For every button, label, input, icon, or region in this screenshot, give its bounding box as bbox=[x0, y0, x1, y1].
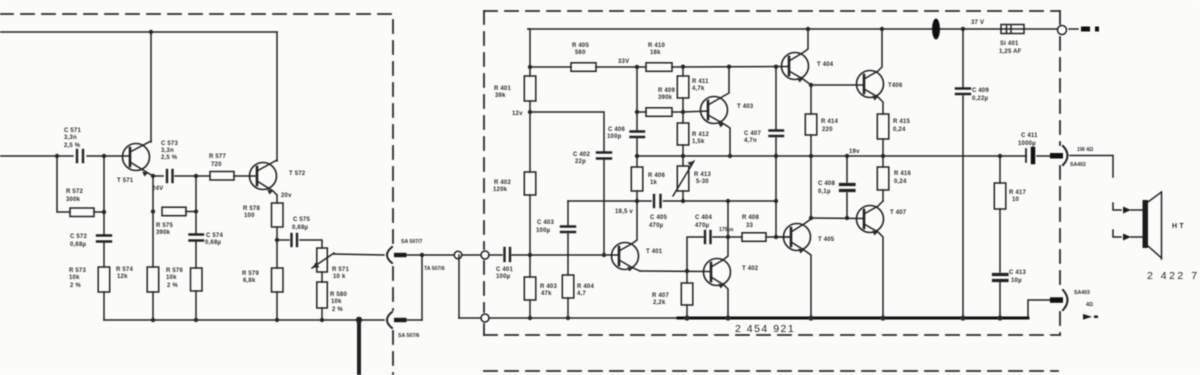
label R403 bbox=[540, 284, 557, 297]
wire output to SA402 bbox=[1037, 155, 1051, 157]
label C413 bbox=[1009, 270, 1026, 284]
svg-text:6,8k: 6,8k bbox=[243, 278, 256, 284]
svg-text:R 403: R 403 bbox=[540, 284, 557, 290]
label 19v bbox=[849, 149, 860, 155]
svg-text:R 410: R 410 bbox=[648, 43, 665, 49]
wire x728 link bbox=[727, 201, 729, 237]
svg-text:R 402: R 402 bbox=[494, 180, 511, 186]
svg-text:R 411: R 411 bbox=[692, 79, 709, 85]
wire x683 column bbox=[682, 67, 684, 201]
capacitor C408 bbox=[846, 156, 848, 218]
svg-text:33V: 33V bbox=[618, 59, 629, 65]
svg-text:1k: 1k bbox=[650, 180, 658, 186]
label C572 bbox=[70, 234, 87, 248]
node supply terminal circle bbox=[1058, 26, 1067, 35]
svg-text:T 404: T 404 bbox=[817, 62, 834, 68]
svg-text:R 577: R 577 bbox=[209, 154, 226, 160]
node T405 emitter ground junction bbox=[808, 315, 813, 320]
label R580 bbox=[330, 292, 347, 313]
node R404 ground junction bbox=[566, 316, 570, 320]
node R579 ground junction bbox=[275, 318, 279, 322]
label R573 bbox=[69, 268, 86, 289]
svg-text:100µ: 100µ bbox=[536, 228, 551, 234]
label C406 bbox=[607, 127, 625, 140]
label 20v bbox=[281, 193, 292, 199]
connector SA403 pin bbox=[1050, 297, 1063, 303]
speaker plug arrows bbox=[1123, 207, 1131, 241]
svg-text:C 408: C 408 bbox=[818, 181, 835, 187]
node shield tap bbox=[420, 253, 424, 257]
resistor R401 bbox=[524, 76, 536, 101]
potentiometer R571 bbox=[312, 248, 334, 272]
ground arrow mark SA403 bbox=[1083, 314, 1098, 320]
capacitor C406 bbox=[631, 132, 645, 138]
svg-text:100p: 100p bbox=[607, 134, 622, 140]
node ground terminal circle bbox=[481, 314, 489, 322]
node R412 output junction bbox=[681, 154, 685, 158]
label R578 bbox=[243, 206, 260, 219]
label C574 bbox=[205, 233, 223, 246]
label R415 bbox=[893, 119, 910, 133]
svg-text:0,68µ: 0,68µ bbox=[292, 225, 308, 231]
connector SA507/7 socket bbox=[387, 247, 392, 263]
svg-text:175µs: 175µs bbox=[719, 227, 734, 233]
label R576 bbox=[166, 268, 183, 289]
svg-text:33: 33 bbox=[746, 223, 754, 229]
wire C572 branch bbox=[103, 156, 105, 320]
label R412 bbox=[692, 132, 709, 145]
svg-text:C 405: C 405 bbox=[650, 215, 667, 221]
wire 12v link bbox=[530, 112, 604, 255]
label C408 bbox=[818, 181, 835, 195]
label part number speaker bbox=[1147, 270, 1200, 282]
node T403 base junction bbox=[681, 110, 685, 114]
svg-text:T 401: T 401 bbox=[646, 249, 663, 255]
resistor R409 bbox=[637, 108, 683, 117]
capacitor C403 bbox=[561, 227, 575, 233]
svg-text:R 417: R 417 bbox=[1009, 190, 1026, 196]
capacitor C572 bbox=[97, 236, 111, 242]
svg-text:4,7k: 4,7k bbox=[692, 86, 705, 92]
capacitor C407 bbox=[770, 131, 784, 137]
svg-text:R 580: R 580 bbox=[330, 292, 347, 298]
transistor T403 bbox=[683, 67, 730, 156]
svg-text:C 575: C 575 bbox=[293, 217, 310, 223]
label R575 bbox=[156, 223, 173, 236]
svg-text:2,5 %: 2,5 % bbox=[64, 143, 81, 149]
node R417 rail junction bbox=[998, 154, 1002, 158]
resistor R579 bbox=[272, 268, 284, 292]
svg-text:2 %: 2 % bbox=[70, 283, 81, 289]
svg-text:SA 507/6: SA 507/6 bbox=[398, 333, 420, 339]
svg-text:720: 720 bbox=[211, 162, 222, 168]
svg-text:T 405: T 405 bbox=[818, 237, 835, 243]
label R572 bbox=[66, 189, 83, 203]
node R576 ground junction bbox=[194, 318, 198, 322]
svg-text:T406: T406 bbox=[888, 83, 903, 89]
label C403 bbox=[536, 220, 554, 234]
wire pot to R580 bbox=[321, 272, 323, 320]
label 37V bbox=[971, 20, 984, 26]
wire T404 emitter to T406 base bbox=[811, 84, 864, 86]
resistor R407 bbox=[681, 271, 693, 317]
wire T572 collector bbox=[276, 32, 278, 161]
label 33V bbox=[618, 59, 629, 65]
node R575 left junction bbox=[151, 209, 155, 213]
node collector tap y237 bbox=[726, 235, 730, 239]
svg-text:T 572: T 572 bbox=[289, 171, 306, 177]
wire shield drop right bbox=[458, 255, 460, 318]
wire thick ground drop bbox=[357, 319, 361, 375]
resistor R575 bbox=[162, 207, 196, 216]
wire shield drop left bbox=[421, 255, 423, 320]
svg-text:10µ: 10µ bbox=[1011, 278, 1022, 284]
label T402 bbox=[742, 266, 759, 272]
wire input to T401 base bbox=[489, 254, 619, 256]
svg-text:T 403: T 403 bbox=[737, 104, 754, 110]
node C573/R577 junction bbox=[194, 174, 198, 178]
node input terminal circle bbox=[481, 251, 489, 259]
node ground drop junction bbox=[356, 317, 362, 323]
node plug circle TA507 bbox=[454, 251, 462, 259]
svg-text:C 402: C 402 bbox=[573, 152, 590, 158]
svg-text:37 V: 37 V bbox=[971, 20, 984, 26]
resistor R406 bbox=[631, 167, 643, 191]
svg-text:R 575: R 575 bbox=[156, 223, 173, 229]
label C411 bbox=[1018, 133, 1038, 147]
speaker HT bbox=[1143, 192, 1162, 259]
resistor R416 bbox=[877, 156, 889, 201]
wire speaker feed marks bbox=[1113, 203, 1121, 237]
label part number amp bbox=[735, 323, 795, 335]
node rail/T571 collector junction bbox=[149, 30, 153, 34]
svg-text:SA402: SA402 bbox=[1070, 162, 1086, 168]
label R402 bbox=[493, 180, 511, 193]
transistor T571 bbox=[123, 141, 154, 177]
node T405 collector junction bbox=[809, 216, 813, 220]
wire T571 collector bbox=[150, 32, 152, 142]
label R405 bbox=[572, 43, 589, 56]
transistor T406 bbox=[857, 29, 884, 114]
svg-text:0,1µ: 0,1µ bbox=[818, 189, 831, 195]
dashed border left preamp block bbox=[0, 14, 393, 375]
connector SA507/6 socket bbox=[387, 312, 392, 328]
capacitor C404 bbox=[705, 231, 711, 243]
label TA507/6 bbox=[424, 266, 445, 272]
connector SA402 socket bbox=[1063, 146, 1068, 165]
node C402/T401 base junction bbox=[602, 253, 606, 257]
label C409 bbox=[972, 88, 989, 102]
label C573 bbox=[161, 141, 178, 161]
svg-text:390k: 390k bbox=[658, 95, 673, 101]
label R417 bbox=[1009, 190, 1026, 203]
wire input line bbox=[0, 155, 129, 157]
capacitor C401 bbox=[505, 248, 511, 261]
wire supply rail 37V bbox=[528, 28, 1057, 30]
svg-text:4,7n: 4,7n bbox=[744, 138, 757, 144]
svg-text:300k: 300k bbox=[66, 197, 81, 203]
resistor R405 bbox=[530, 63, 646, 72]
resistor R576 bbox=[191, 268, 203, 291]
label R407 bbox=[652, 293, 669, 306]
node C408 base junction bbox=[845, 216, 849, 220]
wire T572 emitter column bbox=[276, 195, 278, 320]
wire C413 to ground bbox=[999, 282, 1001, 318]
svg-text:0,22µ: 0,22µ bbox=[972, 96, 988, 102]
dashed border lower block edge bbox=[484, 370, 1058, 372]
svg-text:2 %: 2 % bbox=[332, 307, 343, 313]
svg-text:0,24: 0,24 bbox=[894, 179, 907, 185]
label R414 bbox=[821, 119, 838, 133]
capacitor C409 bbox=[956, 89, 970, 95]
node C571/T571 base junction bbox=[102, 154, 106, 158]
resistor R572 bbox=[70, 208, 94, 217]
label SA507/7 bbox=[401, 239, 423, 245]
capacitor C574 bbox=[190, 235, 204, 241]
node emitter/R407 junction bbox=[685, 269, 689, 273]
svg-text:C 571: C 571 bbox=[64, 128, 81, 134]
svg-text:R 573: R 573 bbox=[69, 268, 86, 274]
ferrite bead on rail bbox=[932, 19, 940, 40]
node output rail left end bbox=[635, 154, 639, 158]
wire supply rail left block bbox=[0, 31, 277, 33]
wire ground to SA403 bbox=[1028, 300, 1051, 318]
svg-text:2 422 73: 2 422 73 bbox=[1147, 270, 1200, 282]
transistor T407 bbox=[857, 201, 884, 318]
wire supply thick dash outside bbox=[1081, 27, 1099, 32]
svg-text:C 413: C 413 bbox=[1009, 270, 1026, 276]
node x728 link top junction bbox=[726, 199, 730, 203]
svg-text:1,5k: 1,5k bbox=[692, 139, 705, 145]
svg-text:SA 507/7: SA 507/7 bbox=[401, 239, 423, 245]
wire feedback node line 18.5V bbox=[568, 200, 651, 202]
node T403 emitter rail junction bbox=[728, 154, 732, 158]
svg-text:470µ: 470µ bbox=[695, 223, 710, 229]
label HT bbox=[1172, 223, 1184, 230]
svg-text:Si 401: Si 401 bbox=[1000, 41, 1019, 47]
node C409 rail junction bbox=[961, 27, 965, 31]
label C402 bbox=[573, 152, 590, 165]
wire C407 column x776 bbox=[775, 67, 777, 237]
node T406 collector rail junction bbox=[880, 27, 884, 31]
svg-text:100µ: 100µ bbox=[496, 274, 511, 280]
svg-text:20v: 20v bbox=[281, 193, 292, 199]
resistor R415 bbox=[877, 114, 889, 156]
svg-text:R 409: R 409 bbox=[658, 88, 675, 94]
wire R572 feedback loop bbox=[57, 156, 104, 212]
svg-text:TA 507/6: TA 507/6 bbox=[424, 266, 445, 272]
capacitor C402 bbox=[597, 153, 611, 159]
wire signal to power amp bbox=[406, 254, 481, 256]
transistor T404 bbox=[782, 29, 812, 85]
svg-text:R 416: R 416 bbox=[894, 171, 911, 177]
wire ground rail thick bbox=[678, 317, 1028, 320]
label C575 bbox=[292, 217, 310, 231]
svg-text:0,68µ: 0,68µ bbox=[205, 240, 221, 246]
wire R577 to T572 base bbox=[234, 175, 257, 177]
svg-text:1000µ: 1000µ bbox=[1018, 141, 1036, 147]
label C404 bbox=[695, 215, 712, 229]
label R409 bbox=[658, 88, 675, 101]
svg-text:10 k: 10 k bbox=[333, 274, 346, 280]
svg-text:T 402: T 402 bbox=[742, 266, 759, 272]
svg-text:0,24: 0,24 bbox=[893, 127, 906, 133]
wire C403 column x568 bbox=[567, 201, 569, 318]
svg-text:1W 4Ω: 1W 4Ω bbox=[1077, 147, 1093, 153]
wire x637 column bbox=[636, 67, 638, 201]
resistor R403 bbox=[524, 277, 536, 300]
wire C575 link bbox=[277, 240, 322, 248]
svg-text:C 572: C 572 bbox=[70, 234, 87, 240]
capacitor C411 bbox=[1025, 149, 1027, 162]
svg-text:18k: 18k bbox=[650, 50, 661, 56]
resistor R417 bbox=[994, 156, 1006, 272]
svg-text:H T: H T bbox=[1172, 223, 1184, 230]
label T407 bbox=[890, 210, 907, 216]
capacitor C575 bbox=[292, 234, 298, 246]
svg-text:390k: 390k bbox=[156, 230, 171, 236]
svg-text:R 413: R 413 bbox=[694, 172, 711, 178]
node T403 collector junction bbox=[727, 65, 731, 69]
wire left column x530 bbox=[528, 29, 530, 318]
transistor T572 bbox=[250, 160, 278, 195]
label R410 bbox=[648, 43, 665, 56]
capacitor C405 bbox=[654, 195, 661, 207]
node R403 ground junction bbox=[528, 316, 532, 320]
node R415/R416 rail junction bbox=[881, 154, 885, 158]
svg-text:2 454 921: 2 454 921 bbox=[735, 323, 795, 335]
wire supply stub outside bbox=[1069, 28, 1078, 30]
svg-text:560: 560 bbox=[575, 50, 586, 56]
svg-text:4Ω: 4Ω bbox=[1086, 302, 1093, 308]
svg-text:R 406: R 406 bbox=[648, 173, 665, 179]
label Si401 bbox=[999, 41, 1022, 55]
node R578/C575 junction bbox=[275, 238, 279, 242]
node base node junction bbox=[528, 253, 532, 257]
node C407 node junction bbox=[774, 199, 778, 203]
node 12v junction bbox=[528, 110, 532, 114]
node T402 emitter ground junction bbox=[725, 315, 730, 320]
label R408 bbox=[742, 215, 759, 229]
label T401 bbox=[646, 249, 663, 255]
svg-text:120k: 120k bbox=[493, 187, 508, 193]
resistor R404 bbox=[562, 275, 574, 298]
svg-text:R 572: R 572 bbox=[66, 189, 83, 195]
label SA403 bbox=[1074, 290, 1093, 308]
node R574 ground junction bbox=[151, 318, 155, 322]
connector SA403 socket bbox=[1063, 290, 1068, 310]
label SA402 bbox=[1070, 147, 1093, 168]
transistor T401 bbox=[612, 201, 641, 272]
label 12v bbox=[512, 111, 523, 117]
svg-text:R 415: R 415 bbox=[893, 119, 910, 125]
label C407 bbox=[744, 131, 761, 144]
capacitor C573 bbox=[167, 170, 173, 182]
svg-text:R 414: R 414 bbox=[821, 119, 838, 125]
svg-text:18,5 v: 18,5 v bbox=[615, 209, 633, 215]
label 18.5v bbox=[615, 209, 633, 215]
svg-text:R 571: R 571 bbox=[332, 267, 349, 273]
svg-text:T 571: T 571 bbox=[117, 178, 134, 184]
svg-text:T 407: T 407 bbox=[890, 210, 907, 216]
resistor R414 bbox=[805, 85, 817, 156]
svg-text:5-30: 5-30 bbox=[696, 179, 709, 185]
label C401 bbox=[496, 267, 513, 280]
svg-text:470µ: 470µ bbox=[649, 223, 664, 229]
label T404 bbox=[817, 62, 834, 68]
transistor T405 bbox=[776, 218, 811, 317]
resistor R580 bbox=[317, 282, 328, 308]
svg-text:C 401: C 401 bbox=[496, 267, 513, 273]
wire output rail y156 bbox=[637, 155, 1026, 157]
wire C404 to R408 bbox=[713, 236, 742, 238]
svg-text:12v: 12v bbox=[512, 111, 523, 117]
svg-text:C 407: C 407 bbox=[744, 131, 761, 137]
node R411 top junction bbox=[681, 65, 685, 69]
capacitor C413 bbox=[994, 275, 1008, 281]
node C413 ground junction bbox=[997, 315, 1002, 320]
wire speaker terminals bbox=[1131, 210, 1142, 237]
svg-text:10: 10 bbox=[1012, 197, 1020, 203]
connector SA507/7 pin bbox=[394, 253, 407, 257]
node emitter 24V junction bbox=[151, 174, 155, 178]
wire emitter branch x153 bbox=[152, 176, 154, 320]
wire C404 branch bbox=[687, 237, 703, 271]
capacitor C571 bbox=[77, 150, 83, 162]
svg-text:C 406: C 406 bbox=[608, 127, 625, 133]
label R411 bbox=[692, 79, 709, 92]
resistor R573 bbox=[98, 267, 110, 292]
label R577 bbox=[209, 154, 226, 168]
label T406 bbox=[888, 83, 903, 89]
node C407 base tap bbox=[774, 235, 778, 239]
label R574 bbox=[116, 267, 133, 280]
label R404 bbox=[577, 284, 594, 297]
svg-text:C 411: C 411 bbox=[1021, 133, 1038, 139]
label C571 bbox=[64, 128, 81, 149]
node R414 tap bbox=[809, 83, 813, 87]
fuse Si401 bbox=[1001, 25, 1024, 34]
svg-text:100: 100 bbox=[244, 213, 255, 219]
label T571 bbox=[117, 178, 134, 184]
node R407 ground junction bbox=[684, 315, 689, 320]
node T404 collector rail junction bbox=[806, 27, 810, 31]
svg-text:C 409: C 409 bbox=[972, 88, 989, 94]
svg-text:SA403: SA403 bbox=[1074, 290, 1090, 296]
svg-text:19v: 19v bbox=[849, 149, 860, 155]
label R413 bbox=[694, 172, 711, 185]
svg-text:R 412: R 412 bbox=[692, 132, 709, 138]
wire ground rail left block bbox=[104, 319, 384, 321]
wire T571 emitter node 24V bbox=[153, 175, 210, 177]
svg-text:22p: 22p bbox=[575, 159, 586, 165]
connector SA507/6 pin bbox=[394, 318, 407, 322]
wire wiper output line bbox=[334, 254, 384, 255]
svg-text:2,2k: 2,2k bbox=[653, 300, 666, 306]
svg-text:2,5 %: 2,5 % bbox=[161, 155, 178, 161]
wire SA402 to speaker bbox=[1070, 156, 1113, 178]
svg-text:47k: 47k bbox=[541, 291, 552, 297]
label SA507/6 bbox=[398, 333, 420, 339]
svg-text:C 404: C 404 bbox=[695, 215, 712, 221]
node R405 tap bbox=[528, 65, 532, 69]
label 175us bbox=[719, 227, 734, 233]
svg-text:C 403: C 403 bbox=[537, 220, 554, 226]
label 24V bbox=[152, 186, 163, 192]
svg-text:24V: 24V bbox=[152, 186, 163, 192]
node R409 tap bbox=[635, 110, 639, 114]
svg-text:R 578: R 578 bbox=[243, 206, 260, 212]
